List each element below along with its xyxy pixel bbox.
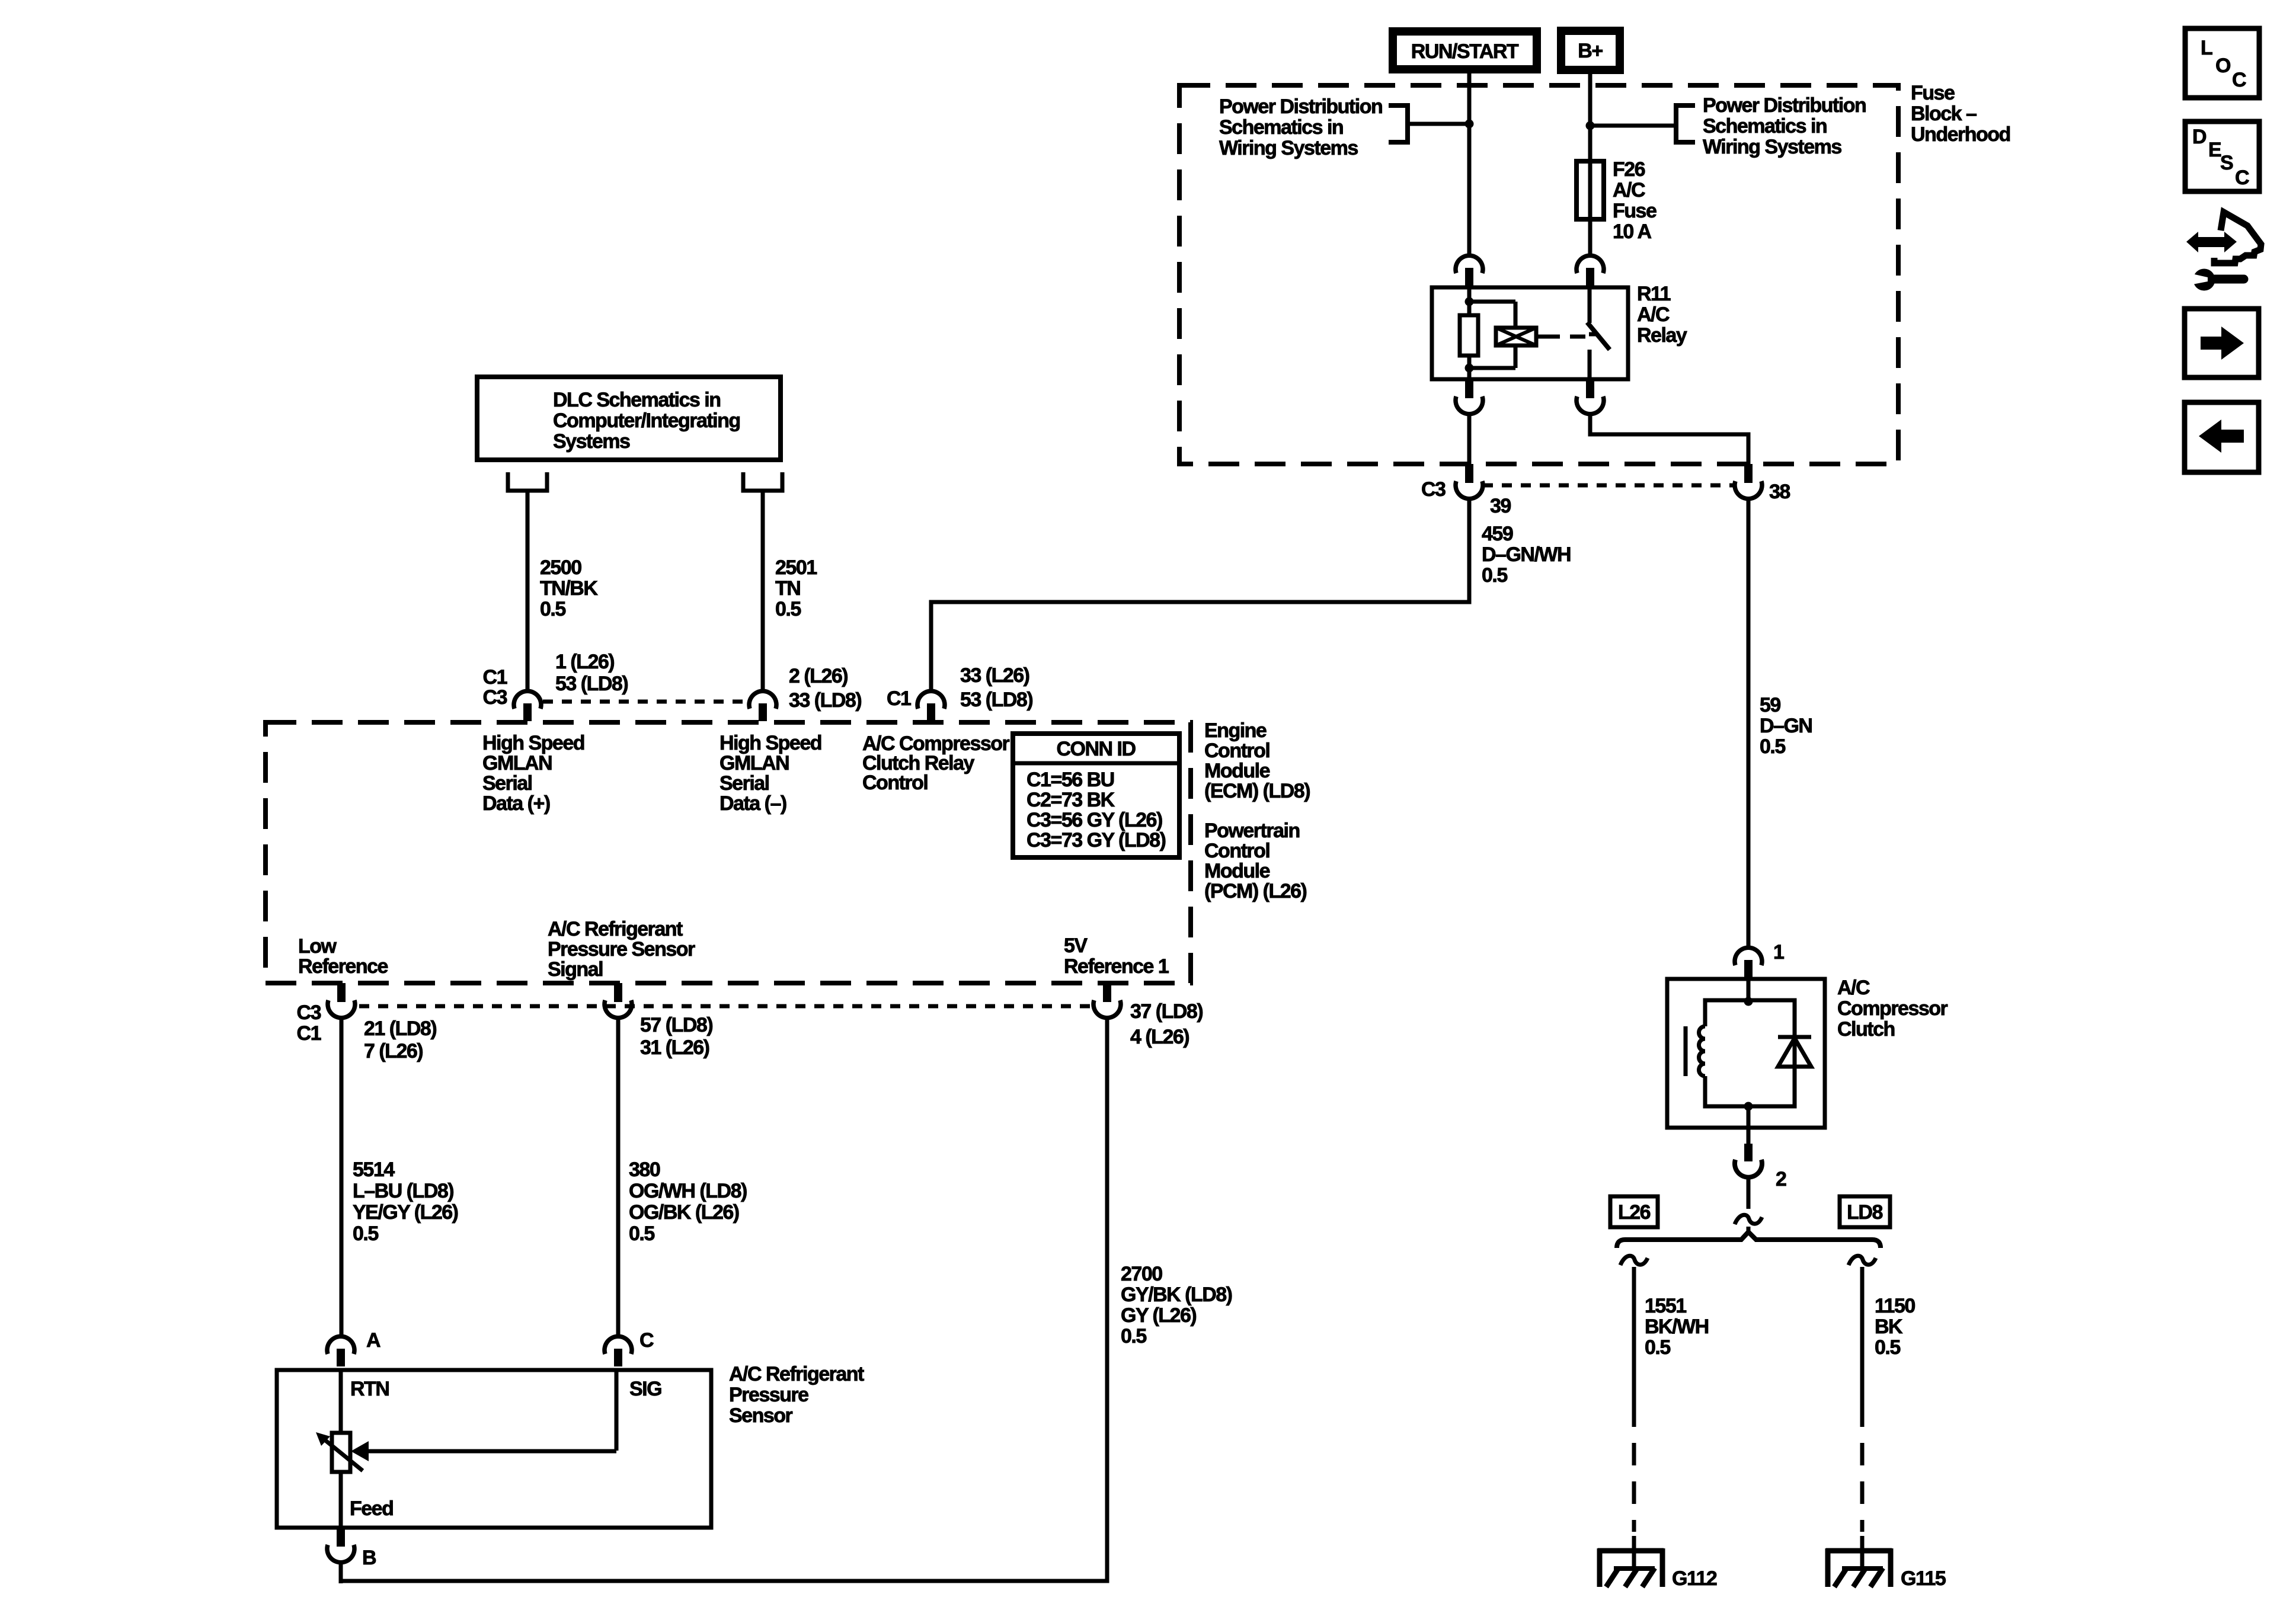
svg-text:37 (LD8): 37 (LD8) bbox=[1130, 1000, 1203, 1023]
wire relay coil low to fuse block edge bbox=[1467, 415, 1472, 464]
connector relay pin (RUN/START side) bbox=[1456, 255, 1483, 286]
A/C refrigerant pressure sensor box bbox=[277, 1370, 711, 1528]
connector sensor terminal C bbox=[605, 1336, 632, 1366]
relay actuator dashed link bbox=[1544, 335, 1587, 339]
svg-text:38: 38 bbox=[1769, 481, 1790, 503]
wire relay switched output to terminal 38 bbox=[1590, 415, 1748, 464]
dotted connector tie line (fuse block) bbox=[1483, 484, 1734, 488]
connector pressure sensor signal bbox=[605, 983, 632, 1018]
wire coil bottom to box edge bbox=[1747, 1106, 1751, 1128]
potentiometer wiper diagonal arrow bbox=[321, 1437, 363, 1471]
ECM/PCM dashed boundary bbox=[266, 722, 1191, 983]
A/C compressor clutch box bbox=[1667, 979, 1825, 1128]
svg-text:C3: C3 bbox=[483, 686, 507, 709]
wire tap to B+ feed bbox=[1590, 124, 1676, 128]
svg-text:RUN/START: RUN/START bbox=[1411, 40, 1519, 63]
splice wire 1551 bbox=[1620, 1256, 1648, 1265]
connector relay pin (B+ side) bbox=[1576, 255, 1604, 286]
DLC connector shroud (left) bbox=[508, 472, 547, 491]
splice wire 1150 bbox=[1849, 1256, 1876, 1265]
wire relay coil feed lower bbox=[1467, 356, 1472, 379]
junction relay internal lower bbox=[1465, 364, 1474, 373]
svg-text:D: D bbox=[2192, 126, 2207, 148]
wire tap to RUN/START feed bbox=[1408, 122, 1469, 126]
connector clutch terminal 2 bbox=[1735, 1144, 1762, 1177]
power node RUN/START bbox=[1393, 31, 1537, 69]
DLC connector shroud (right) bbox=[743, 472, 782, 491]
wire 380 signal bbox=[616, 1019, 621, 1336]
icon swap arrows with wrench bbox=[2186, 212, 2261, 291]
svg-text:39: 39 bbox=[1490, 495, 1511, 517]
coil windings bbox=[1699, 1026, 1706, 1076]
svg-text:2: 2 bbox=[1776, 1168, 1786, 1190]
svg-text:33 (LD8): 33 (LD8) bbox=[789, 689, 861, 712]
potentiometer element bbox=[332, 1433, 350, 1472]
svg-text:31 (L26): 31 (L26) bbox=[640, 1036, 709, 1059]
wire RTN to potentiometer bbox=[339, 1370, 343, 1433]
svg-text:SIG: SIG bbox=[629, 1378, 661, 1400]
clutch diode bbox=[1778, 1035, 1811, 1039]
junction coil bottom bbox=[1744, 1102, 1753, 1111]
CONN ID table bbox=[1013, 734, 1179, 857]
ground G112 bbox=[1598, 1536, 1664, 1587]
connector C1 terminal 33/53 (relay control) bbox=[917, 691, 945, 721]
fuse block - underhood dashed boundary bbox=[1179, 85, 1898, 464]
svg-text:A: A bbox=[366, 1329, 380, 1352]
wire B+ feed down to fuse F26 bbox=[1588, 70, 1593, 161]
svg-text:53 (LD8): 53 (LD8) bbox=[555, 673, 628, 695]
splice harness transition bbox=[1735, 1215, 1762, 1224]
relay switch bbox=[1588, 287, 1592, 323]
wire 2700 GY/BK routing bbox=[341, 1019, 1107, 1581]
svg-text:Feed: Feed bbox=[350, 1497, 393, 1520]
wire 2500 TN/BK bbox=[526, 491, 530, 690]
connector terminal 38 bbox=[1735, 464, 1762, 499]
svg-text:S: S bbox=[2220, 152, 2233, 174]
connector GMLAN- terminal bbox=[749, 691, 776, 721]
svg-text:C3: C3 bbox=[297, 1001, 321, 1024]
dotted connector tie line (ECM bottom) bbox=[359, 1004, 1092, 1009]
svg-text:B+: B+ bbox=[1578, 40, 1603, 62]
wire relay coil feed upper bbox=[1467, 287, 1472, 315]
wire SIG to wiper bbox=[367, 1449, 616, 1454]
connector sensor terminal A bbox=[327, 1336, 354, 1366]
connector C3/C1 low reference bbox=[328, 983, 355, 1018]
wire 1551 BK/WH solid bbox=[1632, 1267, 1636, 1404]
svg-text:57 (LD8): 57 (LD8) bbox=[640, 1014, 712, 1036]
connector relay output (coil low side) bbox=[1456, 379, 1483, 414]
harness brace bbox=[1617, 1232, 1881, 1248]
svg-text:21 (LD8): 21 (LD8) bbox=[364, 1017, 436, 1040]
wire 1150 BK solid bbox=[1860, 1267, 1865, 1404]
wire fuse to relay pin bbox=[1588, 219, 1593, 255]
connector relay output (switched) bbox=[1576, 379, 1604, 414]
option LD8 box bbox=[1840, 1196, 1890, 1227]
svg-text:E: E bbox=[2208, 139, 2221, 161]
icon DESC bbox=[2185, 121, 2259, 191]
svg-text:LD8: LD8 bbox=[1847, 1201, 1882, 1224]
svg-text:B: B bbox=[362, 1547, 376, 1569]
connector sensor terminal B bbox=[327, 1528, 354, 1563]
svg-text:C: C bbox=[639, 1329, 654, 1352]
connector 5V reference 1 bbox=[1093, 983, 1121, 1018]
junction coil top bbox=[1744, 997, 1753, 1006]
svg-text:L26: L26 bbox=[1618, 1201, 1651, 1224]
svg-text:4 (L26): 4 (L26) bbox=[1130, 1026, 1189, 1048]
wire SIG drop bbox=[615, 1370, 619, 1451]
svg-text:C1: C1 bbox=[887, 687, 911, 710]
svg-text:G115: G115 bbox=[1901, 1567, 1946, 1590]
connector C1/C3 GMLAN+ terminal bbox=[514, 691, 541, 721]
svg-text:G112: G112 bbox=[1672, 1567, 1717, 1590]
DLC Schematics box bbox=[477, 377, 781, 460]
clutch core bar bbox=[1684, 1026, 1688, 1076]
svg-text:33 (L26): 33 (L26) bbox=[960, 664, 1029, 687]
svg-text:C1: C1 bbox=[483, 666, 507, 689]
svg-text:C: C bbox=[2232, 69, 2246, 91]
relay solenoid winding bbox=[1496, 328, 1536, 345]
ground G115 bbox=[1826, 1536, 1892, 1587]
wire 1150 BK dashed bbox=[1860, 1404, 1865, 1532]
reference tab (right) bbox=[1676, 105, 1695, 142]
reference tab (left) bbox=[1389, 105, 1408, 142]
power node B+ bbox=[1561, 31, 1620, 70]
wire to harness splice bbox=[1747, 1178, 1751, 1209]
dotted connector tie line (ECM top) bbox=[543, 700, 748, 704]
svg-text:1: 1 bbox=[1773, 941, 1784, 964]
fuse F26 bbox=[1588, 161, 1593, 219]
svg-text:2 (L26): 2 (L26) bbox=[789, 665, 848, 687]
wire 5514 low reference bbox=[340, 1019, 344, 1336]
svg-text:RTN: RTN bbox=[350, 1378, 389, 1400]
wire 2501 TN bbox=[761, 491, 765, 690]
junction relay internal upper bbox=[1465, 297, 1474, 306]
svg-text:O: O bbox=[2215, 55, 2231, 77]
wire to solenoid top bbox=[1469, 300, 1515, 304]
icon back arrow bbox=[2185, 402, 2259, 472]
wire RUN/START feed down to relay bbox=[1467, 69, 1472, 255]
relay R11 outline bbox=[1432, 287, 1628, 379]
wire 459 D-GN/WH routing bbox=[931, 500, 1469, 690]
svg-text:L: L bbox=[2201, 37, 2212, 59]
junction on RUN/START feed bbox=[1465, 120, 1474, 129]
svg-text:C3: C3 bbox=[1421, 478, 1446, 501]
junction on B+ feed bbox=[1586, 121, 1595, 130]
icon forward arrow bbox=[2185, 309, 2259, 377]
wire 1551 BK/WH dashed bbox=[1632, 1404, 1636, 1532]
svg-text:C: C bbox=[2235, 167, 2249, 189]
svg-text:53 (LD8): 53 (LD8) bbox=[960, 689, 1032, 711]
icon LOC bbox=[2185, 28, 2259, 98]
svg-text:7 (L26): 7 (L26) bbox=[364, 1040, 423, 1062]
wire into clutch coil bbox=[1747, 978, 1751, 1000]
svg-text:CONN ID: CONN ID bbox=[1056, 738, 1136, 760]
wire B down bbox=[339, 1563, 343, 1583]
connector clutch terminal 1 bbox=[1735, 948, 1762, 978]
clutch coil loop bbox=[1705, 1000, 1795, 1106]
connector C3 terminal 39 bbox=[1456, 464, 1483, 499]
wire potentiometer to Feed bbox=[339, 1472, 343, 1528]
svg-text:C1: C1 bbox=[297, 1022, 321, 1045]
solenoid actuator stub bbox=[1536, 335, 1544, 339]
option L26 box bbox=[1610, 1196, 1658, 1227]
relay coil resistor bbox=[1460, 315, 1478, 356]
wire clutch to terminal 2 bbox=[1747, 1128, 1751, 1145]
svg-text:1 (L26): 1 (L26) bbox=[555, 651, 614, 673]
wire 59 D-GN to compressor clutch bbox=[1747, 500, 1751, 947]
wire to solenoid bottom bbox=[1469, 366, 1515, 370]
